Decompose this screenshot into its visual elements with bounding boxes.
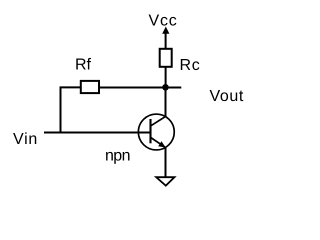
transistor Q1 base bar [149,119,151,143]
wire Rf left horizontal [60,86,82,88]
resistor Rf [81,81,99,93]
transistor Q1 npn body circle [138,114,174,150]
wire collector node horizontal (Rf output to Vout stub) [100,87,182,89]
resistor Rc [160,49,172,67]
svg-text:Vcc: Vcc [149,13,178,30]
transistor Q1 collector diagonal [151,117,166,126]
svg-text:npn: npn [105,148,130,165]
wire Vcc arrow stem [165,33,167,49]
transistor Q1 emitter arrowhead [158,141,166,147]
transistor Q1 emitter diagonal [151,138,166,148]
svg-text:Rf: Rf [75,57,92,74]
ground symbol [156,177,174,186]
wire collector node down to transistor collector [165,87,167,116]
svg-text:Vout: Vout [210,88,244,105]
wire Rc bottom to collector node [165,67,167,88]
wire emitter down to ground [165,147,167,177]
Vcc power arrow [162,27,169,34]
svg-text:Vin: Vin [13,131,38,148]
wire Rf left leg down to base wire [60,87,62,133]
junction dot collector node [162,84,169,91]
svg-text:Rc: Rc [180,57,201,74]
wire Vin to transistor base [44,132,151,134]
